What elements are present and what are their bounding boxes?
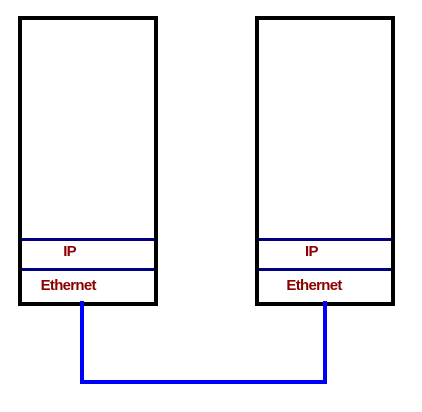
cable vertical right bbox=[323, 301, 327, 384]
cable vertical left bbox=[80, 301, 84, 384]
label Ethernet left bbox=[41, 278, 96, 293]
label IP left bbox=[63, 244, 76, 259]
label Ethernet right bbox=[286, 278, 341, 293]
IP layer divider left bottom bbox=[22, 268, 154, 271]
IP layer divider right top bbox=[259, 238, 391, 241]
IP layer divider right bottom bbox=[259, 268, 391, 271]
host box left bbox=[18, 16, 158, 306]
cable horizontal bbox=[80, 380, 327, 384]
IP layer divider left top bbox=[22, 238, 154, 241]
host box right bbox=[255, 16, 395, 306]
label IP right bbox=[305, 244, 318, 259]
